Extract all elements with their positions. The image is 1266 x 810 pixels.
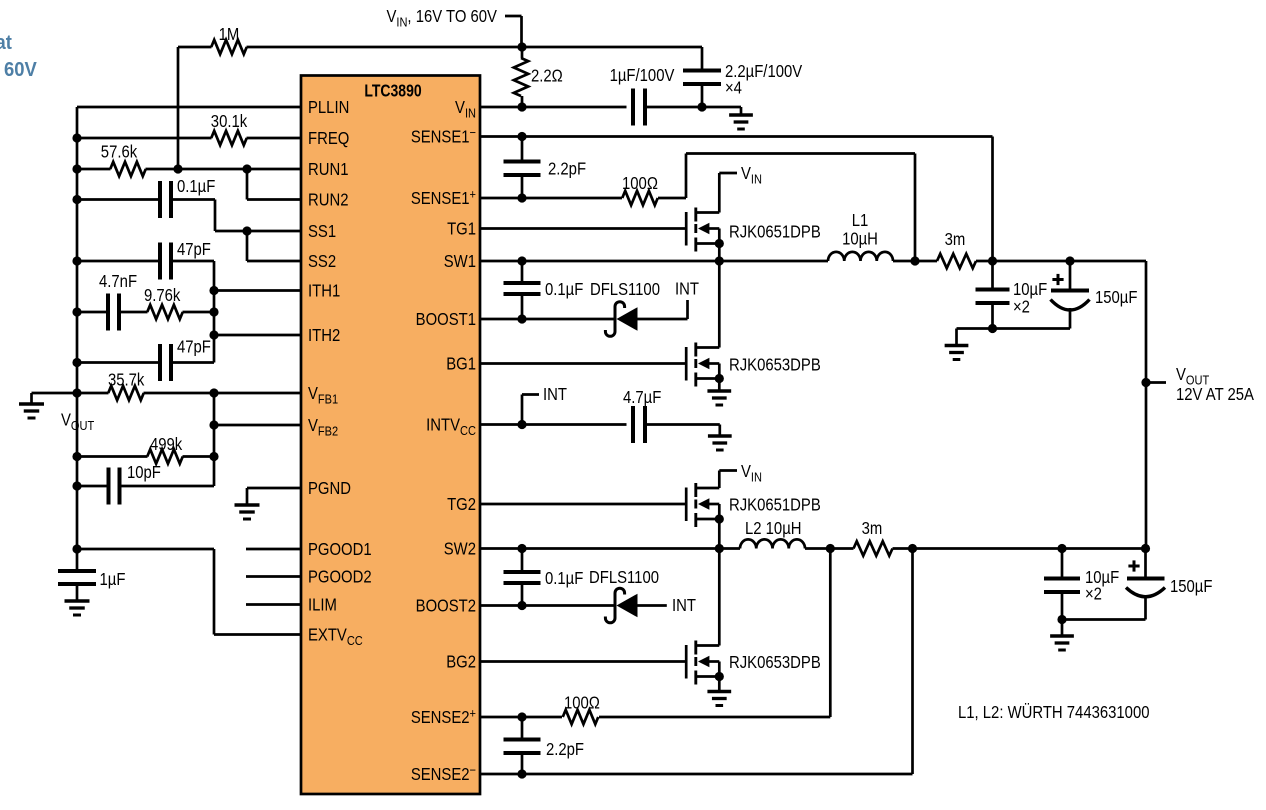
- svg-text:12V AT 25A: 12V AT 25A: [1176, 385, 1254, 404]
- svg-text:RJK0653DPB: RJK0653DPB: [729, 653, 821, 672]
- svg-text:SENSE1−: SENSE1−: [411, 125, 476, 147]
- svg-text:100Ω: 100Ω: [564, 693, 600, 712]
- svg-text:PGOOD2: PGOOD2: [308, 567, 372, 586]
- svg-text:1M: 1M: [219, 25, 240, 44]
- svg-text:RJK0651DPB: RJK0651DPB: [729, 495, 821, 514]
- svg-text:35.7k: 35.7k: [108, 370, 145, 389]
- svg-text:0.1µF: 0.1µF: [177, 177, 215, 196]
- svg-text:10pF: 10pF: [127, 463, 161, 482]
- svg-text:1µF: 1µF: [100, 570, 126, 589]
- svg-text:L1, L2: WÜRTH 7443631000: L1, L2: WÜRTH 7443631000: [958, 703, 1149, 722]
- svg-text:150µF: 150µF: [1170, 577, 1213, 596]
- svg-text:RJK0651DPB: RJK0651DPB: [729, 222, 821, 241]
- svg-text:BOOST2: BOOST2: [416, 596, 476, 615]
- svg-text:57.6k: 57.6k: [101, 142, 138, 161]
- svg-text:ILIM: ILIM: [308, 595, 337, 614]
- svg-text:RJK0653DPB: RJK0653DPB: [729, 355, 821, 374]
- svg-text:4.7nF: 4.7nF: [99, 272, 137, 291]
- svg-text:3m: 3m: [945, 230, 966, 249]
- svg-text:BOOST1: BOOST1: [416, 310, 476, 329]
- svg-text:1µF/100V: 1µF/100V: [610, 66, 675, 85]
- svg-text:×4: ×4: [725, 78, 742, 97]
- svg-text:SENSE2+: SENSE2+: [411, 706, 476, 728]
- svg-text:SS2: SS2: [308, 252, 336, 271]
- svg-text:30.1k: 30.1k: [211, 112, 248, 131]
- svg-text:3m: 3m: [862, 519, 883, 538]
- svg-text:DFLS1100: DFLS1100: [590, 280, 660, 299]
- svg-text:47pF: 47pF: [177, 337, 211, 356]
- svg-text:0.1µF: 0.1µF: [545, 569, 583, 588]
- svg-text:SS1: SS1: [308, 222, 336, 241]
- svg-text:ITH2: ITH2: [308, 326, 340, 345]
- svg-text:10µF: 10µF: [1013, 280, 1047, 299]
- svg-text:INT: INT: [543, 385, 567, 404]
- svg-text:INT: INT: [672, 596, 696, 615]
- svg-text:BG2: BG2: [446, 652, 476, 671]
- svg-text:0.1µF: 0.1µF: [545, 280, 583, 299]
- svg-text:L1: L1: [852, 211, 869, 230]
- svg-text:RUN1: RUN1: [308, 160, 348, 179]
- svg-text:SENSE1+: SENSE1+: [411, 187, 476, 209]
- svg-text:INT: INT: [675, 279, 699, 298]
- svg-text:L2 10µH: L2 10µH: [745, 519, 802, 538]
- svg-text:FREQ: FREQ: [308, 129, 349, 148]
- svg-text:499k: 499k: [150, 435, 183, 454]
- svg-text:SENSE2−: SENSE2−: [411, 763, 476, 785]
- svg-text:BG1: BG1: [446, 354, 476, 373]
- svg-text:100Ω: 100Ω: [622, 174, 658, 193]
- svg-text:47pF: 47pF: [177, 240, 211, 259]
- svg-text:150µF: 150µF: [1095, 288, 1138, 307]
- svg-text:at: at: [0, 31, 12, 54]
- svg-text:×2: ×2: [1013, 297, 1030, 316]
- svg-text:LTC3890: LTC3890: [364, 82, 421, 101]
- svg-text:ITH1: ITH1: [308, 281, 340, 300]
- svg-text:RUN2: RUN2: [308, 190, 348, 209]
- svg-text:PGOOD1: PGOOD1: [308, 540, 372, 559]
- svg-text:2.2Ω: 2.2Ω: [531, 66, 563, 85]
- svg-text:SW1: SW1: [444, 252, 476, 271]
- svg-text:2.2pF: 2.2pF: [548, 159, 586, 178]
- svg-text:PGND: PGND: [308, 479, 351, 498]
- svg-text:PLLIN: PLLIN: [308, 98, 349, 117]
- svg-text:TG2: TG2: [447, 495, 476, 514]
- svg-text:10µH: 10µH: [842, 229, 878, 248]
- svg-text:TG1: TG1: [447, 219, 476, 238]
- svg-text:SW2: SW2: [444, 539, 476, 558]
- svg-text:×2: ×2: [1085, 584, 1102, 603]
- svg-text:4.7µF: 4.7µF: [623, 388, 661, 407]
- svg-text:60V: 60V: [4, 58, 37, 81]
- svg-text:2.2pF: 2.2pF: [546, 740, 584, 759]
- svg-text:DFLS1100: DFLS1100: [589, 568, 659, 587]
- svg-text:9.76k: 9.76k: [144, 286, 181, 305]
